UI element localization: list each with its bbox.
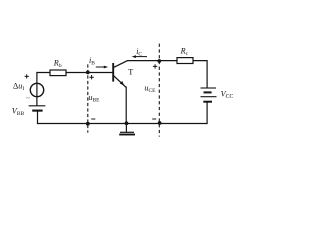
- resistor Rb box: [50, 70, 66, 76]
- battery VCC plate 4 short thick: [203, 101, 212, 103]
- svg-text:VBB: VBB: [12, 107, 25, 117]
- node E (emitter on rail): [125, 121, 129, 125]
- plus sign at collector node: [153, 64, 157, 68]
- dashed line uCE: [158, 44, 160, 137]
- svg-text:iC: iC: [136, 47, 142, 58]
- wire top-right horizontal (collector to VCC): [127, 60, 207, 62]
- svg-text:~: ~: [26, 95, 30, 102]
- dashed line uBE: [87, 64, 89, 132]
- transistor emitter lead: [114, 76, 126, 88]
- current arrow iB: [96, 66, 108, 69]
- svg-text:T: T: [128, 68, 133, 77]
- plus sign of source: [25, 74, 29, 78]
- ground stub: [125, 124, 127, 132]
- minus sign above bottom-right node: [152, 118, 156, 120]
- battery VCC plate 2 short thick: [204, 91, 212, 93]
- battery VBB long plate: [29, 105, 46, 107]
- svg-text:ΔuI: ΔuI: [13, 82, 24, 93]
- node bottom-left on rail: [86, 122, 90, 126]
- svg-text:Rb: Rb: [53, 59, 62, 70]
- wire emitter vertical: [125, 87, 127, 124]
- wire right vertical lower (VCC to bottom rail): [206, 102, 208, 124]
- node C top (collector node): [157, 59, 161, 63]
- emitter arrowhead: [120, 81, 124, 85]
- svg-text:uBE: uBE: [88, 93, 100, 104]
- svg-text:iB: iB: [89, 56, 95, 67]
- resistor Rc box: [177, 58, 193, 64]
- svg-text:VCC: VCC: [221, 89, 234, 99]
- transistor collector lead: [114, 61, 128, 68]
- node bottom-right on rail: [158, 121, 162, 125]
- plus sign at base node: [89, 75, 93, 79]
- ground bar upper: [120, 131, 134, 133]
- battery VCC plate 1 long: [201, 87, 217, 89]
- transistor T base bar: [112, 63, 114, 82]
- wire right vertical upper (to VCC top): [206, 60, 208, 88]
- node B top (base node): [86, 71, 90, 75]
- wire below battery VBB to bottom rail: [37, 111, 39, 124]
- battery VBB short thick plate: [32, 110, 42, 112]
- svg-text:uCE: uCE: [144, 83, 156, 94]
- svg-text:Rc: Rc: [180, 47, 189, 58]
- ground bar lower thick: [119, 134, 135, 136]
- wire top-left horizontal (source to base): [37, 72, 113, 74]
- source circle (delta uI): [30, 83, 43, 96]
- current arrow iC (points left): [132, 55, 147, 58]
- battery VCC plate 3 long: [201, 96, 217, 98]
- minus sign above bottom-left node: [91, 118, 95, 120]
- wire bottom rail: [37, 123, 207, 125]
- wire left vertical (through source): [36, 72, 38, 106]
